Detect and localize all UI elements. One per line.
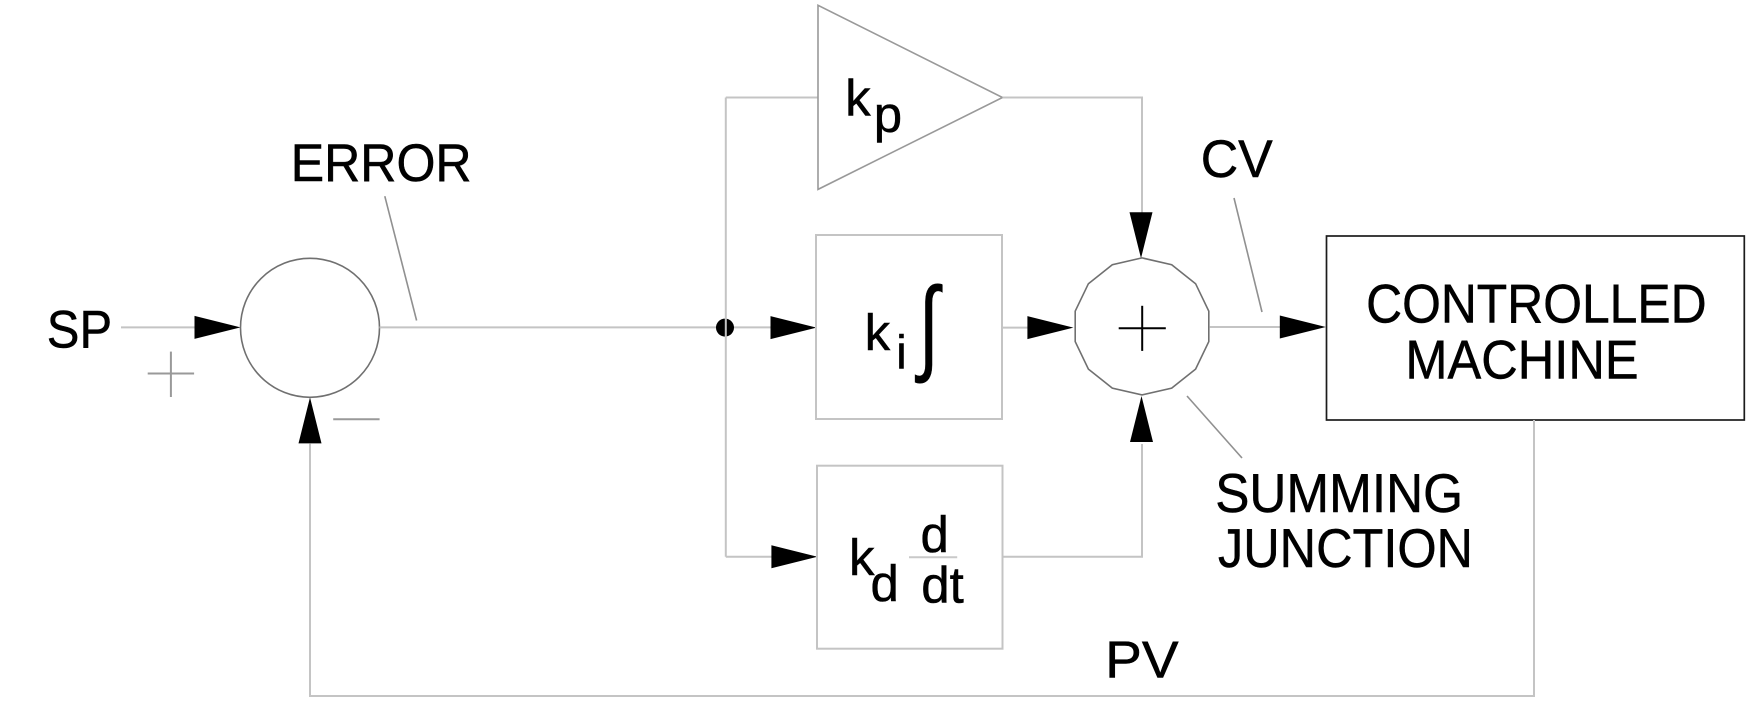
error summing junction circle: [241, 258, 380, 397]
leader line ERROR: [385, 196, 417, 320]
label kp: [845, 70, 902, 143]
svg-text:d: d: [921, 506, 949, 563]
arrowhead into error junction: [195, 316, 241, 339]
node branch junction dot: [716, 319, 734, 337]
svg-text:SUMMING: SUMMING: [1215, 462, 1463, 524]
wire to kd block: [726, 556, 774, 558]
arrowhead into controlled machine: [1280, 316, 1326, 339]
svg-text:MACHINE: MACHINE: [1405, 329, 1638, 390]
arrowhead kd into summing junction: [1130, 396, 1153, 442]
svg-text:k: k: [845, 70, 871, 127]
derivative kd block: [817, 466, 1003, 649]
svg-text:∫: ∫: [915, 267, 944, 384]
wire ki output: [1002, 327, 1029, 329]
wire branch vertical: [725, 98, 727, 557]
wire kd output: [1003, 444, 1143, 557]
svg-text:PV: PV: [1105, 632, 1179, 690]
wire summing junction output: [1210, 326, 1280, 328]
label ki integral: [865, 267, 943, 384]
svg-text:ERROR: ERROR: [291, 134, 472, 193]
label d/dt fraction: [909, 506, 964, 614]
leader line SUMMING JUNCTION: [1187, 396, 1242, 458]
minus sign at error junction: [333, 418, 379, 420]
wire feedback from machine: [310, 420, 1534, 696]
svg-text:p: p: [874, 86, 902, 143]
svg-text:JUNCTION: JUNCTION: [1218, 517, 1473, 579]
svg-text:CONTROLLED: CONTROLLED: [1366, 273, 1707, 334]
arrowhead ki into summing junction: [1027, 316, 1073, 339]
svg-text:SP: SP: [47, 300, 112, 359]
wire SP input: [121, 326, 196, 328]
svg-text:i: i: [896, 326, 906, 379]
label CONTROLLED MACHINE: [1366, 273, 1707, 390]
svg-text:d: d: [871, 555, 899, 612]
integrator ki block: [816, 235, 1002, 419]
arrowhead into kd block: [771, 545, 817, 568]
svg-text:dt: dt: [921, 557, 964, 614]
svg-text:CV: CV: [1201, 130, 1274, 189]
summing junction circle: [1075, 258, 1209, 395]
label SUMMING JUNCTION: [1215, 462, 1473, 579]
arrowhead feedback into error junction: [299, 397, 322, 443]
leader line CV: [1234, 198, 1262, 312]
arrowhead kp into summing junction: [1130, 212, 1153, 258]
amplifier kp triangle: [818, 5, 1003, 189]
plus sign in summing junction: [1119, 306, 1166, 351]
svg-text:k: k: [865, 304, 891, 361]
controlled machine block: [1327, 236, 1745, 420]
wire to kp amp: [726, 97, 818, 99]
wire error junction to branch node: [380, 326, 776, 328]
arrowhead into ki block: [771, 316, 817, 339]
plus sign at error junction: [148, 352, 194, 397]
label kd: [849, 529, 899, 612]
wire kp output: [1003, 98, 1143, 214]
